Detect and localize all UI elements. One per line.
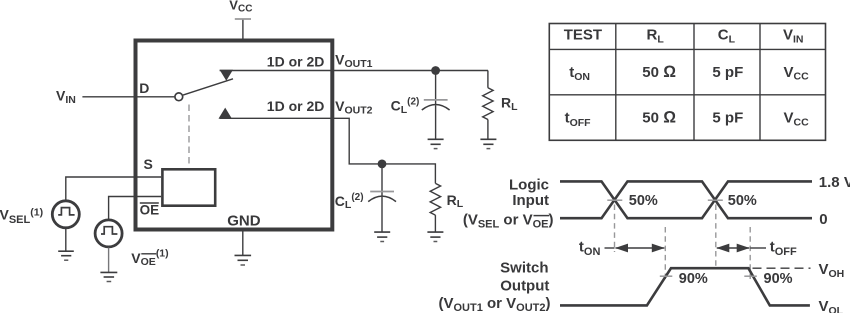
- label 1.8 V: [819, 174, 850, 191]
- ground under GND: [235, 255, 252, 265]
- resistor RL1 stem bottom: [487, 120, 489, 140]
- svg-text:S: S: [144, 156, 153, 172]
- label RL lower: [447, 192, 464, 210]
- node junction 2: [378, 160, 387, 169]
- svg-text:VCC: VCC: [229, 0, 252, 14]
- tON arrow: [615, 244, 665, 253]
- label 0: [819, 211, 827, 228]
- capacitor CL2 flat plate: [370, 191, 394, 193]
- svg-text:VIN: VIN: [56, 88, 76, 106]
- svg-text:VCC: VCC: [784, 64, 810, 83]
- crossing tick 2: [708, 199, 723, 201]
- source VSEL circle: [52, 201, 79, 228]
- wire VSEL to S: [66, 177, 161, 200]
- power VCC bar: [235, 18, 251, 20]
- label VOE(1): [131, 248, 168, 268]
- svg-text:1D or 2D: 1D or 2D: [267, 53, 325, 69]
- label VIN: [56, 88, 76, 106]
- ground under VOE: [100, 272, 117, 281]
- wire output 2: [220, 118, 436, 183]
- resistor RL2: [430, 183, 440, 215]
- svg-text:tOFF: tOFF: [770, 239, 797, 258]
- svg-text:50: 50: [642, 109, 659, 126]
- svg-text:OE: OE: [140, 203, 160, 218]
- svg-text:0: 0: [819, 211, 827, 228]
- svg-text:90%: 90%: [679, 271, 708, 287]
- svg-text:VOH: VOH: [819, 261, 845, 280]
- DUT box U1: [136, 41, 333, 230]
- dashed marker line 1: [614, 205, 616, 253]
- svg-text:50%: 50%: [728, 193, 757, 209]
- table header TEST: [564, 27, 602, 44]
- label VOE(1) overline: [141, 253, 156, 255]
- label 90% first: [679, 271, 708, 287]
- svg-text:1.8 V: 1.8 V: [819, 174, 850, 191]
- svg-text:VIN: VIN: [783, 27, 804, 46]
- svg-text:50%: 50%: [629, 193, 658, 209]
- label 1D or 2D (upper): [267, 53, 325, 69]
- label CL(2) lower: [335, 192, 364, 211]
- svg-text:RL: RL: [647, 27, 665, 46]
- label tON: [579, 239, 601, 258]
- wire VOE to ground: [108, 248, 110, 273]
- svg-text:tOFF: tOFF: [565, 110, 592, 129]
- svg-text:VOUT1: VOUT1: [335, 52, 373, 70]
- capacitor CL1 stem top: [435, 71, 437, 105]
- tON leader line: [605, 247, 615, 249]
- svg-text:Ω: Ω: [663, 109, 676, 127]
- label Logic: [509, 177, 549, 194]
- label pin OE overline: [140, 202, 159, 204]
- switch arm: [183, 79, 233, 95]
- wire output 1: [220, 70, 488, 72]
- ground under RL1: [480, 139, 496, 148]
- svg-text:Input: Input: [512, 192, 549, 209]
- ninety tick 1: [660, 275, 673, 277]
- label VOUT1: [335, 52, 373, 70]
- table cell 50ohm row2: [642, 109, 676, 127]
- switch throw 1 arrowhead: [220, 70, 233, 81]
- svg-text:5 pF: 5 pF: [712, 110, 743, 127]
- wire GND stem: [242, 232, 244, 256]
- table cell VCC row2: [784, 110, 810, 129]
- table cell VCC row1: [784, 64, 810, 83]
- source VSEL pulse glyph: [58, 208, 74, 215]
- svg-text:RL: RL: [447, 192, 464, 210]
- ground under RL2: [427, 232, 443, 241]
- capacitor CL2 stem bottom: [381, 197, 383, 232]
- label 50% second: [728, 193, 757, 209]
- table frame: [549, 24, 825, 141]
- tOFF leader line: [750, 247, 766, 249]
- wire VIN to switch pole: [82, 96, 174, 98]
- svg-text:50: 50: [642, 64, 659, 81]
- table header RL: [647, 27, 665, 46]
- label 1D or 2D (lower): [267, 98, 325, 114]
- dashed marker line 3: [715, 205, 717, 267]
- label tOFF: [770, 239, 797, 258]
- control block rectangle: [162, 169, 215, 205]
- label pin S: [144, 156, 153, 172]
- capacitor CL1 curved plate: [422, 105, 450, 111]
- resistor RL1: [483, 88, 493, 120]
- table cell 5pF row1: [712, 64, 743, 81]
- svg-text:Output: Output: [500, 277, 549, 294]
- label Input: [512, 192, 549, 209]
- capacitor CL2 curved plate: [368, 196, 396, 202]
- wire VOE to OE: [109, 197, 162, 220]
- svg-text:VSEL(1): VSEL(1): [0, 207, 43, 226]
- wire VCC stem: [242, 20, 244, 39]
- ninety tick 2: [744, 275, 757, 277]
- svg-text:CL(2): CL(2): [335, 192, 364, 211]
- ground under CL1: [428, 139, 444, 148]
- label VOUT2: [335, 98, 373, 116]
- table header CL: [718, 27, 736, 46]
- wire VSEL to ground: [65, 229, 67, 252]
- label GND: [227, 213, 261, 230]
- svg-text:VCC: VCC: [784, 110, 810, 129]
- label (VSEL or VOE) overline: [534, 215, 550, 217]
- svg-text:VOUT2: VOUT2: [335, 98, 373, 116]
- svg-text:GND: GND: [227, 213, 261, 230]
- svg-text:5 pF: 5 pF: [712, 64, 743, 81]
- svg-text:Ω: Ω: [663, 63, 676, 81]
- svg-text:D: D: [139, 80, 149, 96]
- svg-text:VOE(1): VOE(1): [131, 248, 168, 268]
- svg-text:90%: 90%: [764, 271, 793, 287]
- svg-text:CL(2): CL(2): [391, 97, 420, 116]
- label pin D: [139, 80, 149, 96]
- table header VIN: [783, 27, 804, 46]
- VOH dashed level line: [753, 267, 811, 269]
- label 50% first: [629, 193, 658, 209]
- dashed marker line 2: [664, 227, 666, 282]
- label CL(2) upper: [391, 97, 420, 116]
- label Switch: [500, 259, 548, 276]
- ground under VSEL: [58, 251, 74, 260]
- label (VOUT1 or VOUT2): [438, 295, 550, 313]
- svg-text:(VOUT1 or VOUT2): (VOUT1 or VOUT2): [438, 295, 550, 313]
- power VCC label: [229, 0, 252, 14]
- switch throw 2 arrowhead: [219, 108, 232, 119]
- label Output: [500, 277, 549, 294]
- label VOL: [819, 298, 844, 313]
- table cell 5pF row2: [712, 110, 743, 127]
- logic input waveform A: [560, 181, 812, 218]
- svg-text:1D or 2D: 1D or 2D: [267, 98, 325, 114]
- svg-text:VOL: VOL: [819, 298, 844, 313]
- capacitor CL1 stem bottom: [435, 105, 437, 139]
- table cell tOFF: [565, 110, 592, 129]
- svg-text:tON: tON: [569, 64, 590, 83]
- label VSEL(1): [0, 207, 43, 226]
- label pin OE: [140, 203, 160, 218]
- label VOH: [819, 261, 845, 280]
- label RL upper: [501, 95, 518, 113]
- capacitor CL1 flat plate: [424, 99, 448, 101]
- switch output waveform: [560, 268, 810, 305]
- svg-text:Switch: Switch: [500, 259, 548, 276]
- svg-text:CL: CL: [718, 27, 736, 46]
- svg-text:tON: tON: [579, 239, 601, 258]
- logic input waveform B: [560, 181, 812, 218]
- table cell 50ohm row1: [642, 63, 676, 81]
- label (VSEL or VOE): [463, 212, 554, 231]
- dashed marker line 4: [749, 227, 751, 282]
- label 90% second: [764, 271, 793, 287]
- node junction 1: [431, 66, 440, 75]
- table cell tON: [569, 64, 590, 83]
- svg-text:(VSEL or VOE): (VSEL or VOE): [463, 212, 554, 231]
- source VOE circle: [95, 220, 122, 247]
- wire corner to RL1: [487, 71, 489, 88]
- crossing tick 1: [607, 199, 622, 201]
- ground under CL2: [374, 232, 390, 241]
- svg-text:TEST: TEST: [564, 27, 602, 44]
- svg-text:RL: RL: [501, 95, 518, 113]
- dashed control link: [188, 105, 190, 168]
- switch pole circle: [175, 93, 183, 101]
- capacitor CL2 stem top: [381, 164, 383, 196]
- tOFF arrow: [716, 244, 749, 253]
- resistor RL2 stem bottom: [434, 215, 436, 232]
- source VOE pulse glyph: [101, 227, 117, 234]
